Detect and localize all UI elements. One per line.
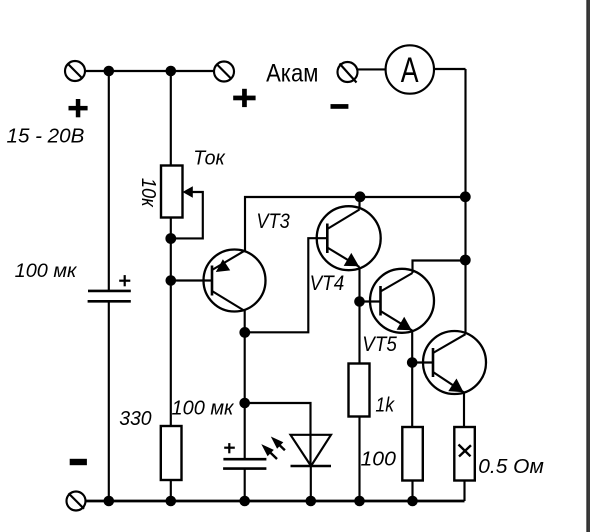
svg-text:A: A	[401, 50, 419, 90]
svg-text:10к: 10к	[137, 178, 160, 208]
svg-text:100 мк: 100 мк	[15, 261, 78, 282]
svg-text:330: 330	[119, 407, 152, 430]
svg-text:100 мк: 100 мк	[172, 396, 235, 419]
svg-text:1k: 1k	[375, 394, 395, 417]
svg-text:0.5 Ом: 0.5 Ом	[478, 455, 544, 478]
svg-text:Акам: Акам	[266, 60, 318, 88]
svg-text:VT4: VT4	[310, 272, 345, 295]
svg-text:VT5: VT5	[362, 333, 397, 356]
svg-text:VT3: VT3	[256, 210, 290, 233]
svg-text:15 - 20В: 15 - 20В	[7, 126, 85, 148]
svg-text:100: 100	[361, 448, 397, 471]
svg-text:Ток: Ток	[193, 147, 226, 170]
